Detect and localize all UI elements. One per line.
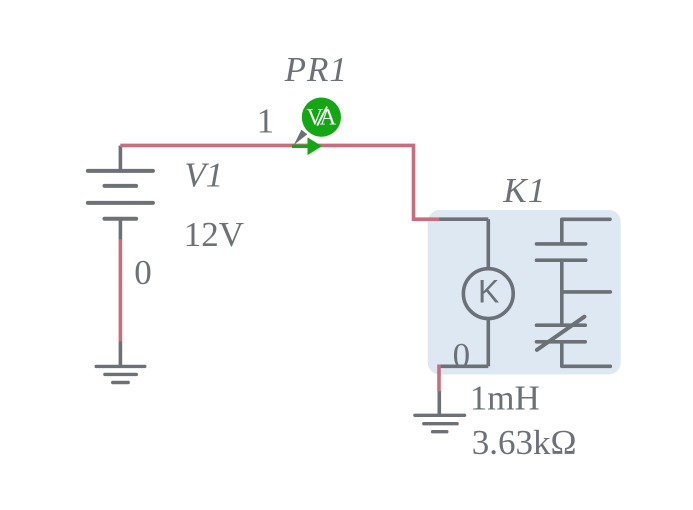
- svg-text:V1: V1: [184, 156, 223, 195]
- svg-text:PR1: PR1: [284, 50, 348, 89]
- svg-text:0: 0: [453, 336, 471, 375]
- svg-text:K: K: [478, 273, 499, 309]
- svg-text:12V: 12V: [184, 215, 244, 254]
- svg-text:K1: K1: [502, 171, 546, 210]
- svg-text:3.63kΩ: 3.63kΩ: [472, 423, 577, 462]
- svg-text:1mH: 1mH: [470, 379, 540, 418]
- svg-text:0: 0: [134, 253, 152, 292]
- svg-text:1: 1: [257, 101, 275, 140]
